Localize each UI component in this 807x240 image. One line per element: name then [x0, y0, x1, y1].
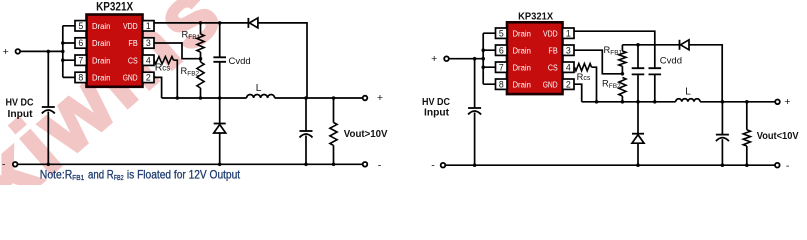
- svg-text:-: -: [2, 159, 6, 171]
- svg-text:Rcs: Rcs: [577, 72, 591, 82]
- svg-text:Drain: Drain: [513, 62, 532, 72]
- svg-text:FB: FB: [548, 45, 558, 55]
- svg-text:GND: GND: [123, 73, 138, 83]
- svg-text:KP321X: KP321X: [518, 12, 553, 23]
- svg-text:Input: Input: [424, 107, 449, 119]
- svg-text:Note:R: Note:R: [40, 168, 73, 182]
- svg-text:5: 5: [78, 21, 83, 31]
- svg-text:8: 8: [499, 79, 504, 89]
- svg-text:5: 5: [499, 28, 504, 38]
- svg-text:Cvdd: Cvdd: [229, 56, 251, 67]
- svg-text:L: L: [256, 83, 262, 94]
- svg-text:Drain: Drain: [513, 45, 532, 55]
- svg-text:4: 4: [146, 55, 151, 65]
- svg-text:Drain: Drain: [513, 79, 532, 89]
- svg-text:L: L: [685, 87, 691, 98]
- svg-text:Drain: Drain: [92, 21, 111, 31]
- svg-text:4: 4: [566, 62, 571, 72]
- svg-text:RFB1: RFB1: [604, 45, 623, 57]
- svg-text:CS: CS: [128, 55, 138, 65]
- svg-text:Drain: Drain: [92, 73, 111, 83]
- svg-text:and R: and R: [88, 168, 114, 182]
- svg-text:1: 1: [146, 21, 151, 31]
- svg-text:CS: CS: [548, 62, 558, 72]
- svg-text:7: 7: [499, 62, 504, 72]
- svg-text:6: 6: [499, 45, 504, 55]
- svg-text:-: -: [786, 160, 790, 172]
- svg-text:Vout>10V: Vout>10V: [344, 129, 388, 140]
- svg-text:Vout<10V: Vout<10V: [757, 131, 799, 142]
- svg-text:Rcs: Rcs: [155, 62, 171, 74]
- svg-text:VDD: VDD: [543, 28, 558, 38]
- svg-text:Drain: Drain: [92, 55, 111, 65]
- svg-text:+: +: [431, 53, 437, 65]
- svg-text:HV DC: HV DC: [6, 96, 34, 108]
- svg-text:8: 8: [78, 73, 83, 83]
- svg-text:FB1: FB1: [72, 173, 84, 182]
- svg-text:1: 1: [566, 28, 571, 38]
- svg-text:is Floated for 12V Output: is Floated for 12V Output: [127, 168, 241, 182]
- svg-text:6: 6: [78, 38, 83, 48]
- svg-text:FB2: FB2: [114, 173, 124, 182]
- svg-text:Drain: Drain: [92, 38, 111, 48]
- svg-text:GND: GND: [543, 79, 558, 89]
- svg-text:FB: FB: [128, 38, 138, 48]
- svg-text:-: -: [378, 160, 382, 172]
- svg-text:RFB2: RFB2: [602, 78, 621, 90]
- svg-text:KP321X: KP321X: [96, 0, 133, 14]
- svg-text:3: 3: [566, 45, 571, 55]
- svg-text:7: 7: [78, 55, 83, 65]
- svg-text:+: +: [784, 96, 790, 108]
- svg-text:Input: Input: [8, 108, 33, 120]
- svg-text:+: +: [377, 92, 383, 104]
- svg-text:3: 3: [146, 38, 151, 48]
- svg-text:+: +: [3, 46, 9, 58]
- svg-text:VDD: VDD: [123, 21, 138, 31]
- svg-text:-: -: [431, 160, 435, 172]
- svg-text:Drain: Drain: [513, 28, 532, 38]
- svg-text:2: 2: [146, 73, 151, 83]
- svg-text:2: 2: [566, 79, 571, 89]
- svg-text:Cvdd: Cvdd: [660, 56, 682, 67]
